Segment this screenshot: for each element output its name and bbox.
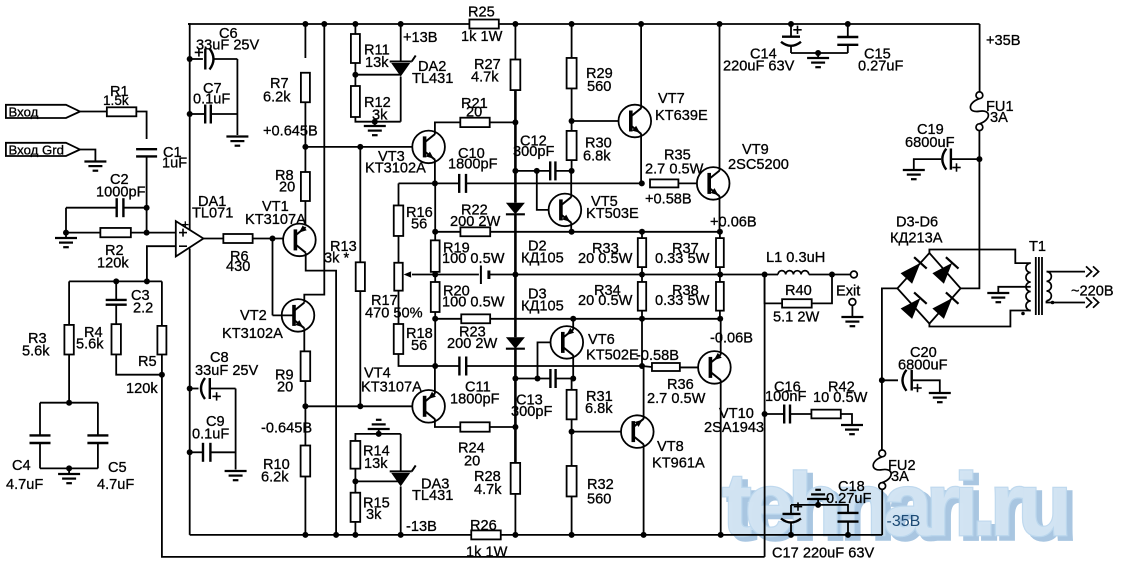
- svg-text:TL071: TL071: [192, 206, 233, 222]
- ground: [55, 233, 77, 248]
- node junction: [569, 168, 575, 174]
- svg-text:VT2: VT2: [240, 308, 267, 324]
- svg-text:200 2W: 200 2W: [447, 336, 498, 352]
- resistor R29: [567, 58, 613, 95]
- ground: [84, 162, 106, 171]
- svg-text:100nF: 100nF: [765, 389, 806, 405]
- svg-text:-0.58В: -0.58В: [636, 348, 679, 364]
- resistor R8: [275, 168, 310, 201]
- terminal speaker return: [841, 299, 863, 327]
- capacitor C8: [195, 350, 259, 401]
- node junction: [187, 386, 193, 392]
- chevron: [1086, 266, 1092, 277]
- wire VT5 emitter: [570, 222, 572, 231]
- svg-text:VT9: VT9: [742, 142, 769, 158]
- wire: [146, 208, 148, 233]
- wire: [68, 281, 70, 325]
- wire VT7 emitter: [640, 134, 642, 184]
- T1 primary phase dot: [1051, 301, 1055, 305]
- wire: [571, 89, 573, 131]
- wire VT10 collector: [720, 380, 722, 535]
- wire: [304, 24, 306, 58]
- node junction: [66, 465, 72, 471]
- wire: [515, 170, 550, 172]
- svg-text:VT8: VT8: [657, 439, 684, 455]
- node junction: [321, 21, 327, 27]
- svg-text:D3-D6: D3-D6: [896, 215, 938, 231]
- wire: [952, 158, 979, 160]
- watermark tehnari.ru: [722, 454, 1077, 558]
- wire: [680, 366, 698, 368]
- capacitor C20: [882, 345, 948, 392]
- ground: [841, 425, 863, 434]
- wire: [147, 232, 176, 234]
- wire: [68, 355, 70, 403]
- svg-text:-0.645В: -0.645В: [261, 421, 312, 437]
- wire: [66, 232, 100, 234]
- resistor R26: [466, 518, 508, 561]
- connector Вход Grd: [6, 143, 80, 158]
- wire: [190, 58, 198, 60]
- wire VT3 collector: [435, 122, 460, 134]
- wire output rail: [435, 274, 479, 276]
- transistor VT9: [697, 142, 789, 200]
- wire C11 line: [435, 365, 459, 367]
- svg-text:20: 20: [464, 454, 480, 470]
- node junction: [570, 316, 576, 322]
- resistor R33: [578, 238, 646, 267]
- node junction: [398, 21, 404, 27]
- svg-text:5.6k: 5.6k: [76, 337, 104, 353]
- node junction: [639, 272, 645, 278]
- capacitor C2: [96, 172, 146, 217]
- resistor R22: [450, 203, 501, 237]
- fuse FU2: [873, 450, 915, 489]
- svg-text:VT7: VT7: [658, 91, 685, 107]
- svg-text:300pF: 300pF: [511, 404, 552, 420]
- svg-text:Вход Grd: Вход Grd: [9, 143, 64, 158]
- svg-text:+0.58В: +0.58В: [645, 192, 692, 208]
- node junction: [639, 180, 645, 186]
- node junction: [534, 168, 540, 174]
- svg-text:TL431: TL431: [412, 488, 453, 504]
- svg-text:2.2: 2.2: [133, 301, 153, 317]
- resistor R10: [261, 446, 310, 486]
- T1 secondary phase dot: [1021, 312, 1025, 316]
- node junction: [762, 411, 768, 417]
- wire: [190, 388, 199, 390]
- svg-text:100 0.5W: 100 0.5W: [442, 251, 505, 267]
- wire: [66, 207, 117, 209]
- wire: [97, 403, 99, 436]
- node junction: [144, 205, 150, 211]
- wire: [304, 102, 306, 147]
- op-amp DA1: [176, 194, 234, 257]
- potentiometer R17: [365, 263, 423, 322]
- svg-text:KT3102A: KT3102A: [222, 326, 283, 342]
- svg-text:+0.06В: +0.06В: [710, 215, 757, 231]
- resistor R38: [655, 282, 724, 311]
- node junction: [333, 532, 339, 538]
- svg-text:20 0.5W: 20 0.5W: [578, 293, 633, 309]
- node junction: [398, 532, 404, 538]
- resistor R15: [351, 493, 390, 523]
- ground: [364, 122, 386, 136]
- wire: [400, 24, 402, 62]
- diode D3 КД105: [506, 287, 564, 349]
- wire: [354, 469, 356, 493]
- wire VT1 collector: [306, 253, 336, 535]
- node junction: [432, 363, 438, 369]
- wire: [354, 522, 356, 535]
- wire: [515, 378, 550, 380]
- transistor VT2: [222, 299, 314, 342]
- node junction: [569, 21, 575, 27]
- svg-text:R5: R5: [138, 354, 157, 370]
- svg-text:KT3107A: KT3107A: [245, 212, 306, 228]
- wire VT5 base: [537, 171, 549, 210]
- wire: [147, 246, 176, 281]
- node junction: [512, 532, 518, 538]
- capacitor C3: [106, 288, 154, 317]
- resistor R21: [460, 96, 489, 127]
- node junction: [512, 424, 518, 430]
- node junction: [569, 118, 575, 124]
- svg-text:T1: T1: [1029, 239, 1046, 255]
- inverted ground: [807, 490, 829, 505]
- wire: [556, 378, 574, 380]
- wire +0.645V node: [305, 146, 412, 148]
- wire +35V top rail: [499, 23, 980, 25]
- svg-text:R26: R26: [470, 518, 497, 534]
- svg-text:Exit: Exit: [836, 284, 860, 300]
- resistor R6: [223, 234, 252, 275]
- wire: [979, 24, 981, 92]
- node junction: [717, 21, 723, 27]
- wire: [435, 231, 460, 233]
- T1 primary winding: [1047, 272, 1052, 301]
- svg-text:0.27uF: 0.27uF: [858, 59, 904, 75]
- svg-text:470 50%: 470 50%: [365, 306, 423, 322]
- wire VT9 collector: [719, 24, 721, 171]
- svg-text:КД105: КД105: [521, 299, 564, 315]
- transistor VT5: [549, 194, 639, 227]
- T1 center tap: [987, 287, 1030, 302]
- node junction: [187, 449, 193, 455]
- svg-text:220uF 63V: 220uF 63V: [723, 59, 795, 75]
- svg-text:2SC5200: 2SC5200: [728, 157, 789, 173]
- wire: [355, 434, 400, 441]
- resistor R34: [578, 282, 646, 311]
- wire bridge minus: [882, 288, 898, 453]
- svg-text:+35В: +35В: [986, 33, 1021, 49]
- node junction: [302, 403, 308, 409]
- svg-text:3A: 3A: [990, 110, 1008, 126]
- resistor R31: [567, 389, 614, 419]
- svg-text:4.7uF: 4.7uF: [97, 477, 134, 493]
- capacitor C11: [450, 357, 500, 408]
- svg-text:L1 0.3uH: L1 0.3uH: [766, 250, 825, 266]
- node junction: [641, 532, 647, 538]
- resistor R16: [394, 205, 433, 236]
- transistor VT6: [551, 326, 639, 363]
- transistor VT7: [619, 91, 708, 137]
- wire: [273, 314, 295, 316]
- capacitor C17: [772, 502, 874, 561]
- wire feedback branch: [764, 275, 766, 557]
- node junction: [352, 72, 358, 78]
- wire: [190, 113, 206, 115]
- capacitor C13: [511, 369, 556, 420]
- bridge diode lower-right: [932, 298, 952, 319]
- svg-text:+13В: +13В: [403, 30, 438, 46]
- resistor R1: [103, 84, 136, 116]
- wire: [978, 131, 980, 160]
- wire: [719, 232, 721, 238]
- svg-text:KT3102A: KT3102A: [365, 161, 426, 177]
- resistor R40: [773, 283, 819, 326]
- wire: [355, 74, 400, 76]
- node junction: [639, 363, 645, 369]
- fuse FU1: [970, 92, 1013, 131]
- wire: [514, 24, 516, 60]
- svg-text:-13В: -13В: [406, 519, 437, 535]
- wire: [355, 480, 400, 482]
- capacitor C6: [195, 26, 260, 70]
- wire: [80, 111, 107, 113]
- bridge diode lower-left: [901, 298, 921, 319]
- resistor R20: [431, 282, 505, 312]
- node junction: [639, 316, 645, 322]
- wire: [272, 239, 274, 316]
- capacitor C4: [6, 435, 51, 493]
- svg-text:6.8k: 6.8k: [585, 401, 613, 417]
- node junction: [569, 229, 575, 235]
- wire VT7 collector: [640, 24, 642, 109]
- node junction: [357, 144, 363, 150]
- svg-text:13k: 13k: [365, 55, 389, 71]
- wire upper emitter line: [490, 231, 720, 233]
- svg-text:КД213А: КД213А: [890, 231, 943, 247]
- svg-text:0.1uF: 0.1uF: [193, 92, 230, 108]
- wire: [680, 366, 698, 368]
- svg-text:33uF 25V: 33uF 25V: [195, 363, 259, 379]
- wire: [161, 281, 163, 326]
- resistor R4: [76, 324, 121, 354]
- svg-text:430: 430: [226, 259, 250, 275]
- ground: [225, 471, 247, 480]
- resistor R32: [567, 466, 614, 508]
- wire VT4 collector: [435, 419, 460, 427]
- wire: [136, 112, 146, 140]
- svg-text:TL431: TL431: [412, 71, 453, 87]
- resistor R42: [811, 380, 867, 419]
- node junction: [845, 21, 851, 27]
- svg-text:13k: 13k: [364, 456, 388, 472]
- wire: [400, 486, 402, 535]
- wire: [555, 170, 571, 172]
- svg-text:6.2k: 6.2k: [263, 90, 291, 106]
- svg-text:1800pF: 1800pF: [450, 392, 500, 408]
- node junction: [718, 532, 724, 538]
- resistor R23: [447, 314, 498, 352]
- node junction: [512, 272, 518, 278]
- wire: [235, 389, 237, 470]
- wire: [791, 505, 848, 512]
- wire: [466, 182, 642, 184]
- svg-text:1uF: 1uF: [162, 156, 187, 172]
- wire primary bottom: [1047, 301, 1086, 303]
- wire: [514, 349, 517, 463]
- wire: [571, 497, 573, 535]
- wire VT8 base: [572, 431, 621, 433]
- wire VT8 collector: [643, 444, 645, 535]
- wire: [913, 380, 940, 392]
- svg-text:300pF: 300pF: [513, 144, 554, 160]
- node junction: [187, 111, 193, 117]
- resistor R28: [474, 463, 520, 498]
- node junction: [815, 50, 821, 56]
- wire: [253, 238, 296, 240]
- wire -0.645V node: [305, 405, 412, 407]
- wire: [490, 121, 516, 123]
- svg-text:56: 56: [411, 338, 427, 354]
- node junction: [63, 230, 69, 236]
- svg-text:1.5k: 1.5k: [103, 93, 129, 108]
- capacitor C1: [136, 145, 187, 172]
- bridge diamond: [897, 253, 960, 324]
- wire bridge AC top: [929, 250, 1030, 264]
- terminal Exit: [836, 271, 860, 299]
- wire: [203, 238, 223, 240]
- regulator DA2 TL431: [390, 56, 454, 88]
- resistor R11: [351, 34, 390, 71]
- resistor R30: [567, 131, 612, 165]
- wire: [304, 381, 306, 406]
- wire: [571, 379, 573, 390]
- capacitor C14: [723, 24, 802, 75]
- svg-text:0.33 5W: 0.33 5W: [655, 251, 710, 267]
- svg-text:56: 56: [411, 217, 427, 233]
- wire: [434, 312, 436, 366]
- wire: [719, 311, 721, 319]
- ground: [903, 170, 925, 179]
- svg-text:120k: 120k: [126, 381, 158, 397]
- node junction: [357, 403, 363, 409]
- wire: [304, 477, 306, 535]
- svg-text:120k: 120k: [97, 256, 129, 272]
- svg-text:20 0.5W: 20 0.5W: [578, 251, 633, 267]
- capacitor C9: [192, 414, 229, 462]
- svg-text:5.6k: 5.6k: [22, 344, 50, 360]
- resistor R37: [655, 238, 724, 267]
- wire: [304, 201, 306, 227]
- wire VT3 emitter: [434, 159, 436, 183]
- svg-text:3A: 3A: [891, 469, 909, 485]
- inductor L1: [766, 250, 825, 275]
- resistor R35: [645, 148, 704, 188]
- svg-text:1k 1W: 1k 1W: [466, 545, 508, 561]
- svg-text:1800pF: 1800pF: [448, 157, 498, 173]
- wire: [65, 208, 67, 233]
- resistor R18: [394, 324, 433, 354]
- svg-text:+0.645В: +0.645В: [263, 124, 318, 140]
- wire: [678, 182, 696, 184]
- wire: [359, 291, 361, 406]
- wire VT6 collector: [572, 355, 574, 379]
- svg-text:KT503E: KT503E: [586, 206, 639, 222]
- node junction: [352, 478, 358, 484]
- node junction: [432, 316, 438, 322]
- wire: [304, 406, 306, 445]
- svg-text:20: 20: [277, 380, 293, 396]
- svg-text:100 0.5W: 100 0.5W: [442, 295, 505, 311]
- resistor R2: [97, 228, 131, 272]
- svg-text:C5: C5: [108, 460, 127, 476]
- wire: [115, 281, 117, 300]
- wire: [435, 318, 461, 320]
- wire -13V bottom rail: [190, 534, 472, 536]
- node junction: [432, 272, 438, 278]
- R17 wiper: [404, 271, 436, 277]
- capacitor C18: [826, 479, 872, 522]
- wire bridge AC bottom: [929, 311, 1030, 327]
- svg-text:1000pF: 1000pF: [96, 185, 146, 201]
- node junction: [569, 532, 575, 538]
- node junction: [829, 272, 835, 278]
- svg-text:6800uF: 6800uF: [898, 358, 948, 374]
- wire: [641, 267, 643, 282]
- wire: [961, 159, 980, 288]
- svg-text:R25: R25: [468, 5, 495, 21]
- wire VT10 emitter: [720, 319, 722, 355]
- svg-text:20: 20: [279, 180, 295, 196]
- wire: [354, 63, 356, 86]
- inverted ground: [368, 420, 390, 434]
- T1 core: [1035, 257, 1037, 315]
- node junction: [845, 532, 851, 538]
- wire: [188, 24, 190, 230]
- node junction: [638, 21, 644, 27]
- wire: [39, 403, 41, 436]
- svg-text:KT502Е: KT502Е: [586, 348, 639, 364]
- node junction: [976, 156, 982, 162]
- capacitor C16: [765, 380, 807, 424]
- wire: [131, 232, 147, 234]
- node junction: [270, 236, 276, 242]
- node junction: [788, 532, 794, 538]
- svg-text:2.7 0.5W: 2.7 0.5W: [645, 162, 704, 178]
- bridge diode upper-right: [932, 263, 952, 284]
- wire: [790, 524, 792, 535]
- svg-text:4.7k: 4.7k: [474, 482, 502, 498]
- resistor R13: [324, 239, 365, 291]
- wire: [881, 489, 883, 535]
- wire: [398, 183, 400, 205]
- node junction: [512, 376, 518, 382]
- node junction: [372, 119, 378, 125]
- wire: [398, 236, 400, 263]
- wire: [790, 505, 792, 513]
- resistor R5: [126, 326, 166, 397]
- wire -35V bottom rail: [501, 534, 883, 536]
- wire: [466, 365, 642, 367]
- wire: [40, 467, 98, 469]
- node junction: [717, 272, 723, 278]
- svg-text:6800uF: 6800uF: [905, 135, 955, 151]
- wire VT7 base: [572, 120, 619, 122]
- wire: [914, 159, 941, 169]
